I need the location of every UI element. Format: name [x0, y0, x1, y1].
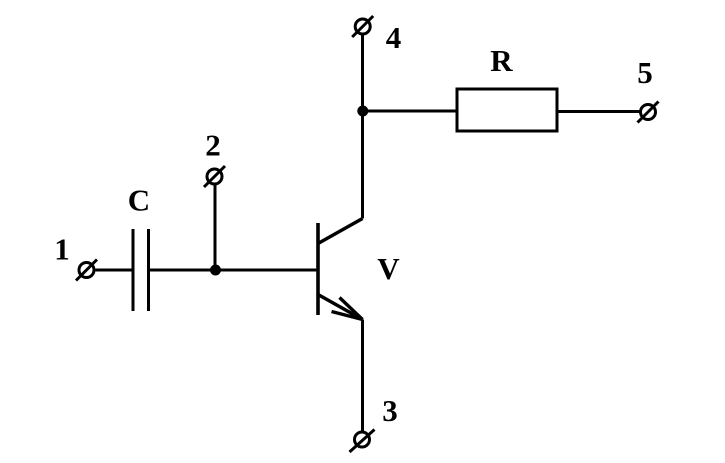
wire node4 to resistor — [363, 110, 458, 113]
terminal pin 2 — [204, 166, 225, 187]
wire emitter to pin 3 — [361, 320, 364, 432]
terminal pin 5 — [638, 102, 659, 123]
transistor V collector diagonal — [318, 219, 363, 244]
transistor V base bar — [316, 223, 320, 315]
junction node 2 — [210, 265, 221, 276]
svg-text:5: 5 — [637, 55, 653, 90]
svg-text:C: C — [128, 183, 150, 218]
terminal pin 1 — [76, 260, 97, 281]
transistor V emitter diagonal with arrow — [318, 295, 363, 320]
terminal pin 3 — [350, 430, 375, 453]
resistor R — [457, 89, 557, 131]
svg-text:1: 1 — [54, 232, 70, 267]
wire pin1 to capacitor — [96, 269, 132, 272]
terminal pin 4 — [352, 16, 373, 37]
junction node 4 — [357, 106, 368, 117]
svg-text:V: V — [377, 251, 400, 286]
wire capacitor to transistor base — [150, 269, 318, 272]
svg-text:R: R — [490, 43, 513, 78]
capacitor C — [133, 229, 149, 311]
wire node2 to terminal 2 — [214, 185, 217, 271]
wire resistor to pin 5 — [557, 110, 641, 113]
svg-text:3: 3 — [382, 393, 398, 428]
wire collector to node 4 — [361, 35, 364, 219]
svg-text:4: 4 — [386, 20, 402, 55]
svg-text:2: 2 — [205, 128, 221, 163]
